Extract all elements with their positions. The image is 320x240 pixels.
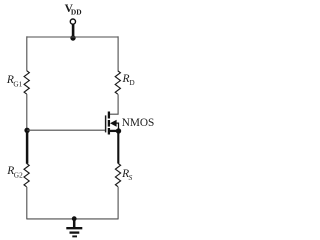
wire: bottom rail	[27, 218, 118, 220]
wire: left rail upper	[26, 36, 28, 71]
wire: RS to bottom rail	[117, 187, 119, 220]
wire: gate node to RG2 thick	[26, 130, 29, 163]
body arrow	[110, 120, 117, 127]
wire: left rail mid	[26, 94, 28, 130]
channel segment source	[108, 128, 110, 135]
body lead	[116, 123, 119, 131]
resistor RD	[115, 71, 120, 94]
wire: right rail to drain	[110, 94, 118, 114]
source bar	[110, 130, 119, 132]
svg-text:NMOS: NMOS	[122, 117, 154, 129]
svg-text:D: D	[129, 78, 134, 87]
wire: left rail lower	[26, 187, 28, 220]
svg-text:S: S	[129, 173, 133, 182]
resistor RS	[115, 163, 120, 186]
wire: gate lead	[27, 129, 106, 131]
junction dot gate node	[24, 128, 29, 133]
svg-text:G1: G1	[13, 80, 22, 89]
wire: top rail	[27, 36, 118, 38]
svg-text:R: R	[122, 73, 130, 85]
channel segment body	[108, 120, 110, 127]
svg-text:G2: G2	[14, 171, 23, 180]
junction dot at VDD and top rail	[70, 35, 75, 40]
resistor RG1	[24, 71, 29, 94]
wire: source to RS thick	[117, 131, 119, 163]
svg-text:DD: DD	[71, 7, 82, 16]
power terminal VDD circle	[70, 19, 75, 24]
ground	[66, 219, 82, 237]
wire: right rail upper	[117, 36, 119, 71]
channel segment drain	[108, 112, 110, 119]
gate bar	[105, 115, 107, 132]
source junction dot	[116, 128, 121, 133]
wire: VDD stem	[72, 24, 75, 37]
resistor RG2	[24, 163, 29, 186]
transistor NMOS	[106, 112, 119, 135]
ground junction dot	[72, 216, 77, 221]
